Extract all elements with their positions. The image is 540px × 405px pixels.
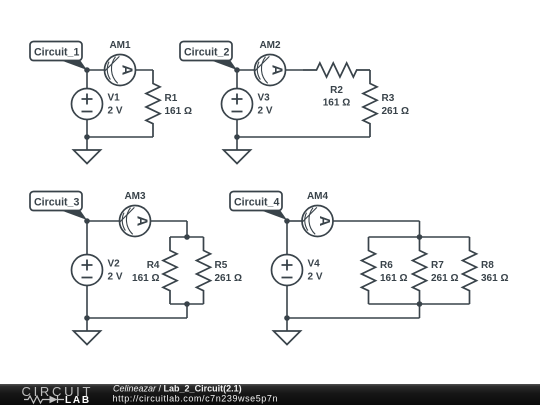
svg-text:R6: R6 xyxy=(380,260,393,271)
svg-text:Circuit_4: Circuit_4 xyxy=(234,197,279,209)
wire: bottom bus of R4||R5 xyxy=(170,303,204,305)
node: Circuit_1 net junction xyxy=(84,67,90,73)
node: top bus junction (circuit 3) xyxy=(184,234,190,240)
ground xyxy=(274,318,301,345)
resistor R5 (261 &#937;) xyxy=(197,237,242,304)
svg-text:161 Ω: 161 Ω xyxy=(132,273,159,284)
ammeter AM2 xyxy=(255,40,286,86)
CircuitLab logo: resistor-diode wire glyph xyxy=(24,396,64,403)
ground xyxy=(224,137,251,164)
voltage source V1 (2 V) xyxy=(72,89,123,120)
wire: V2 bottom to ground node xyxy=(86,286,88,319)
wire: V3 bottom to ground node xyxy=(236,120,238,138)
node: bottom bus junction (circuit 3) xyxy=(184,301,190,307)
resistor R8 (361 &#937;) xyxy=(463,237,509,304)
svg-text:R4: R4 xyxy=(147,260,160,271)
svg-text:261 Ω: 261 Ω xyxy=(382,106,409,117)
wire: V1 bottom to ground node xyxy=(86,120,88,138)
svg-text:Circuit_3: Circuit_3 xyxy=(34,197,79,209)
wire: bottom bus of R6||R7||R8 xyxy=(369,303,470,305)
resistor R1 (161 &#937;) xyxy=(146,70,192,137)
wire: top node to ammeter/resistor (circuit 1) xyxy=(87,69,153,71)
node: top bus junction (circuit 4) xyxy=(417,234,423,240)
wire: node to V2 top xyxy=(86,221,88,255)
svg-text:R8: R8 xyxy=(481,260,494,271)
svg-text:A: A xyxy=(133,216,149,227)
ammeter AM4 xyxy=(302,191,333,237)
svg-text:AM2: AM2 xyxy=(259,40,281,51)
node: bottom bus junction (circuit 4) xyxy=(417,301,423,307)
svg-text:R2: R2 xyxy=(330,85,343,96)
svg-text:A: A xyxy=(316,216,332,227)
wire stub xyxy=(369,69,371,71)
svg-text:LAB: LAB xyxy=(65,395,91,405)
svg-text:2 V: 2 V xyxy=(258,106,273,117)
node: ground junction (circuit 2) xyxy=(234,134,240,140)
wire: bottom return (circuit 4) xyxy=(287,317,420,319)
svg-text:2 V: 2 V xyxy=(108,106,123,117)
wire: V4 bottom to ground node xyxy=(286,286,288,319)
svg-text:261 Ω: 261 Ω xyxy=(431,273,458,284)
svg-text:R5: R5 xyxy=(215,260,228,271)
node: Circuit_2 net junction xyxy=(234,67,240,73)
wire: node to ammeter (circuit 2) xyxy=(237,69,303,71)
voltage source V4 (2 V) xyxy=(272,255,323,286)
svg-text:2 V: 2 V xyxy=(308,272,323,283)
svg-text:AM3: AM3 xyxy=(124,191,146,202)
wire: feed down to top bus (circuit 3) xyxy=(186,221,188,237)
svg-text:V4: V4 xyxy=(308,259,321,270)
wire: top bus of R4||R5 xyxy=(170,236,204,238)
svg-text:V1: V1 xyxy=(108,93,121,104)
wire: AM3 to parallel pair feed xyxy=(151,220,188,222)
svg-text:R1: R1 xyxy=(165,93,178,104)
svg-text:261 Ω: 261 Ω xyxy=(215,273,242,284)
wire: bottom return (circuit 1) xyxy=(87,136,153,138)
svg-text:V2: V2 xyxy=(108,259,121,270)
svg-text:R7: R7 xyxy=(431,260,444,271)
svg-text:AM1: AM1 xyxy=(109,40,131,51)
node: Circuit_4 net junction xyxy=(284,218,290,224)
node: ground junction (circuit 3) xyxy=(84,315,90,321)
ammeter AM3 xyxy=(120,191,151,237)
svg-text:161 Ω: 161 Ω xyxy=(380,273,407,284)
wire: node to V3 top xyxy=(236,70,238,89)
ground xyxy=(74,137,101,164)
wire: bottom bus down to return xyxy=(186,304,188,318)
resistor R2 (161 &#937;) xyxy=(303,63,370,109)
resistor R7 (261 &#937;) xyxy=(413,237,459,304)
svg-text:2 V: 2 V xyxy=(108,272,123,283)
wire stub xyxy=(152,69,154,71)
wire: feed down to top bus (circuit 4) xyxy=(419,221,421,237)
node label Circuit_1 xyxy=(30,42,87,71)
svg-text:161 Ω: 161 Ω xyxy=(165,106,192,117)
wire: bottom return (circuit 2) xyxy=(237,136,370,138)
svg-text:http://circuitlab.com/c7n239ws: http://circuitlab.com/c7n239wse5p7n xyxy=(113,393,279,403)
node: ground junction (circuit 1) xyxy=(84,134,90,140)
node label Circuit_3 xyxy=(30,192,87,221)
resistor R4 (161 &#937;) xyxy=(132,237,177,304)
wire: node to AM4 xyxy=(287,220,302,222)
resistor R6 (161 &#937;) xyxy=(362,237,408,304)
node: Circuit_3 net junction xyxy=(84,218,90,224)
wire: bottom return (circuit 3) xyxy=(87,317,187,319)
svg-text:R3: R3 xyxy=(382,93,395,104)
node: ground junction (circuit 4) xyxy=(284,315,290,321)
node label Circuit_4 xyxy=(230,192,287,221)
svg-text:A: A xyxy=(118,65,134,76)
svg-text:161 Ω: 161 Ω xyxy=(323,98,350,109)
ammeter AM1 xyxy=(105,40,136,86)
wire: AM4 to parallel feed xyxy=(333,220,420,222)
svg-text:Circuit_2: Circuit_2 xyxy=(184,47,229,59)
svg-text:AM4: AM4 xyxy=(307,191,329,202)
wire: top bus of R6||R7||R8 xyxy=(369,236,470,238)
voltage source V3 (2 V) xyxy=(222,89,273,120)
resistor R3 (261 &#937;) xyxy=(363,70,409,137)
wire: node to AM3 xyxy=(87,220,120,222)
svg-text:361 Ω: 361 Ω xyxy=(481,273,508,284)
wire: bottom bus down to return xyxy=(419,304,421,318)
svg-text:Circuit_1: Circuit_1 xyxy=(34,47,79,59)
node label Circuit_2 xyxy=(180,42,237,71)
svg-text:Celineazar / Lab_2_Circuit(2.1: Celineazar / Lab_2_Circuit(2.1) xyxy=(113,383,242,393)
svg-text:A: A xyxy=(268,65,284,76)
voltage source V2 (2 V) xyxy=(72,255,123,286)
wire: node to V1 top xyxy=(86,70,88,89)
wire: node to V4 top xyxy=(286,221,288,255)
svg-text:V3: V3 xyxy=(258,93,271,104)
ground xyxy=(74,318,101,345)
